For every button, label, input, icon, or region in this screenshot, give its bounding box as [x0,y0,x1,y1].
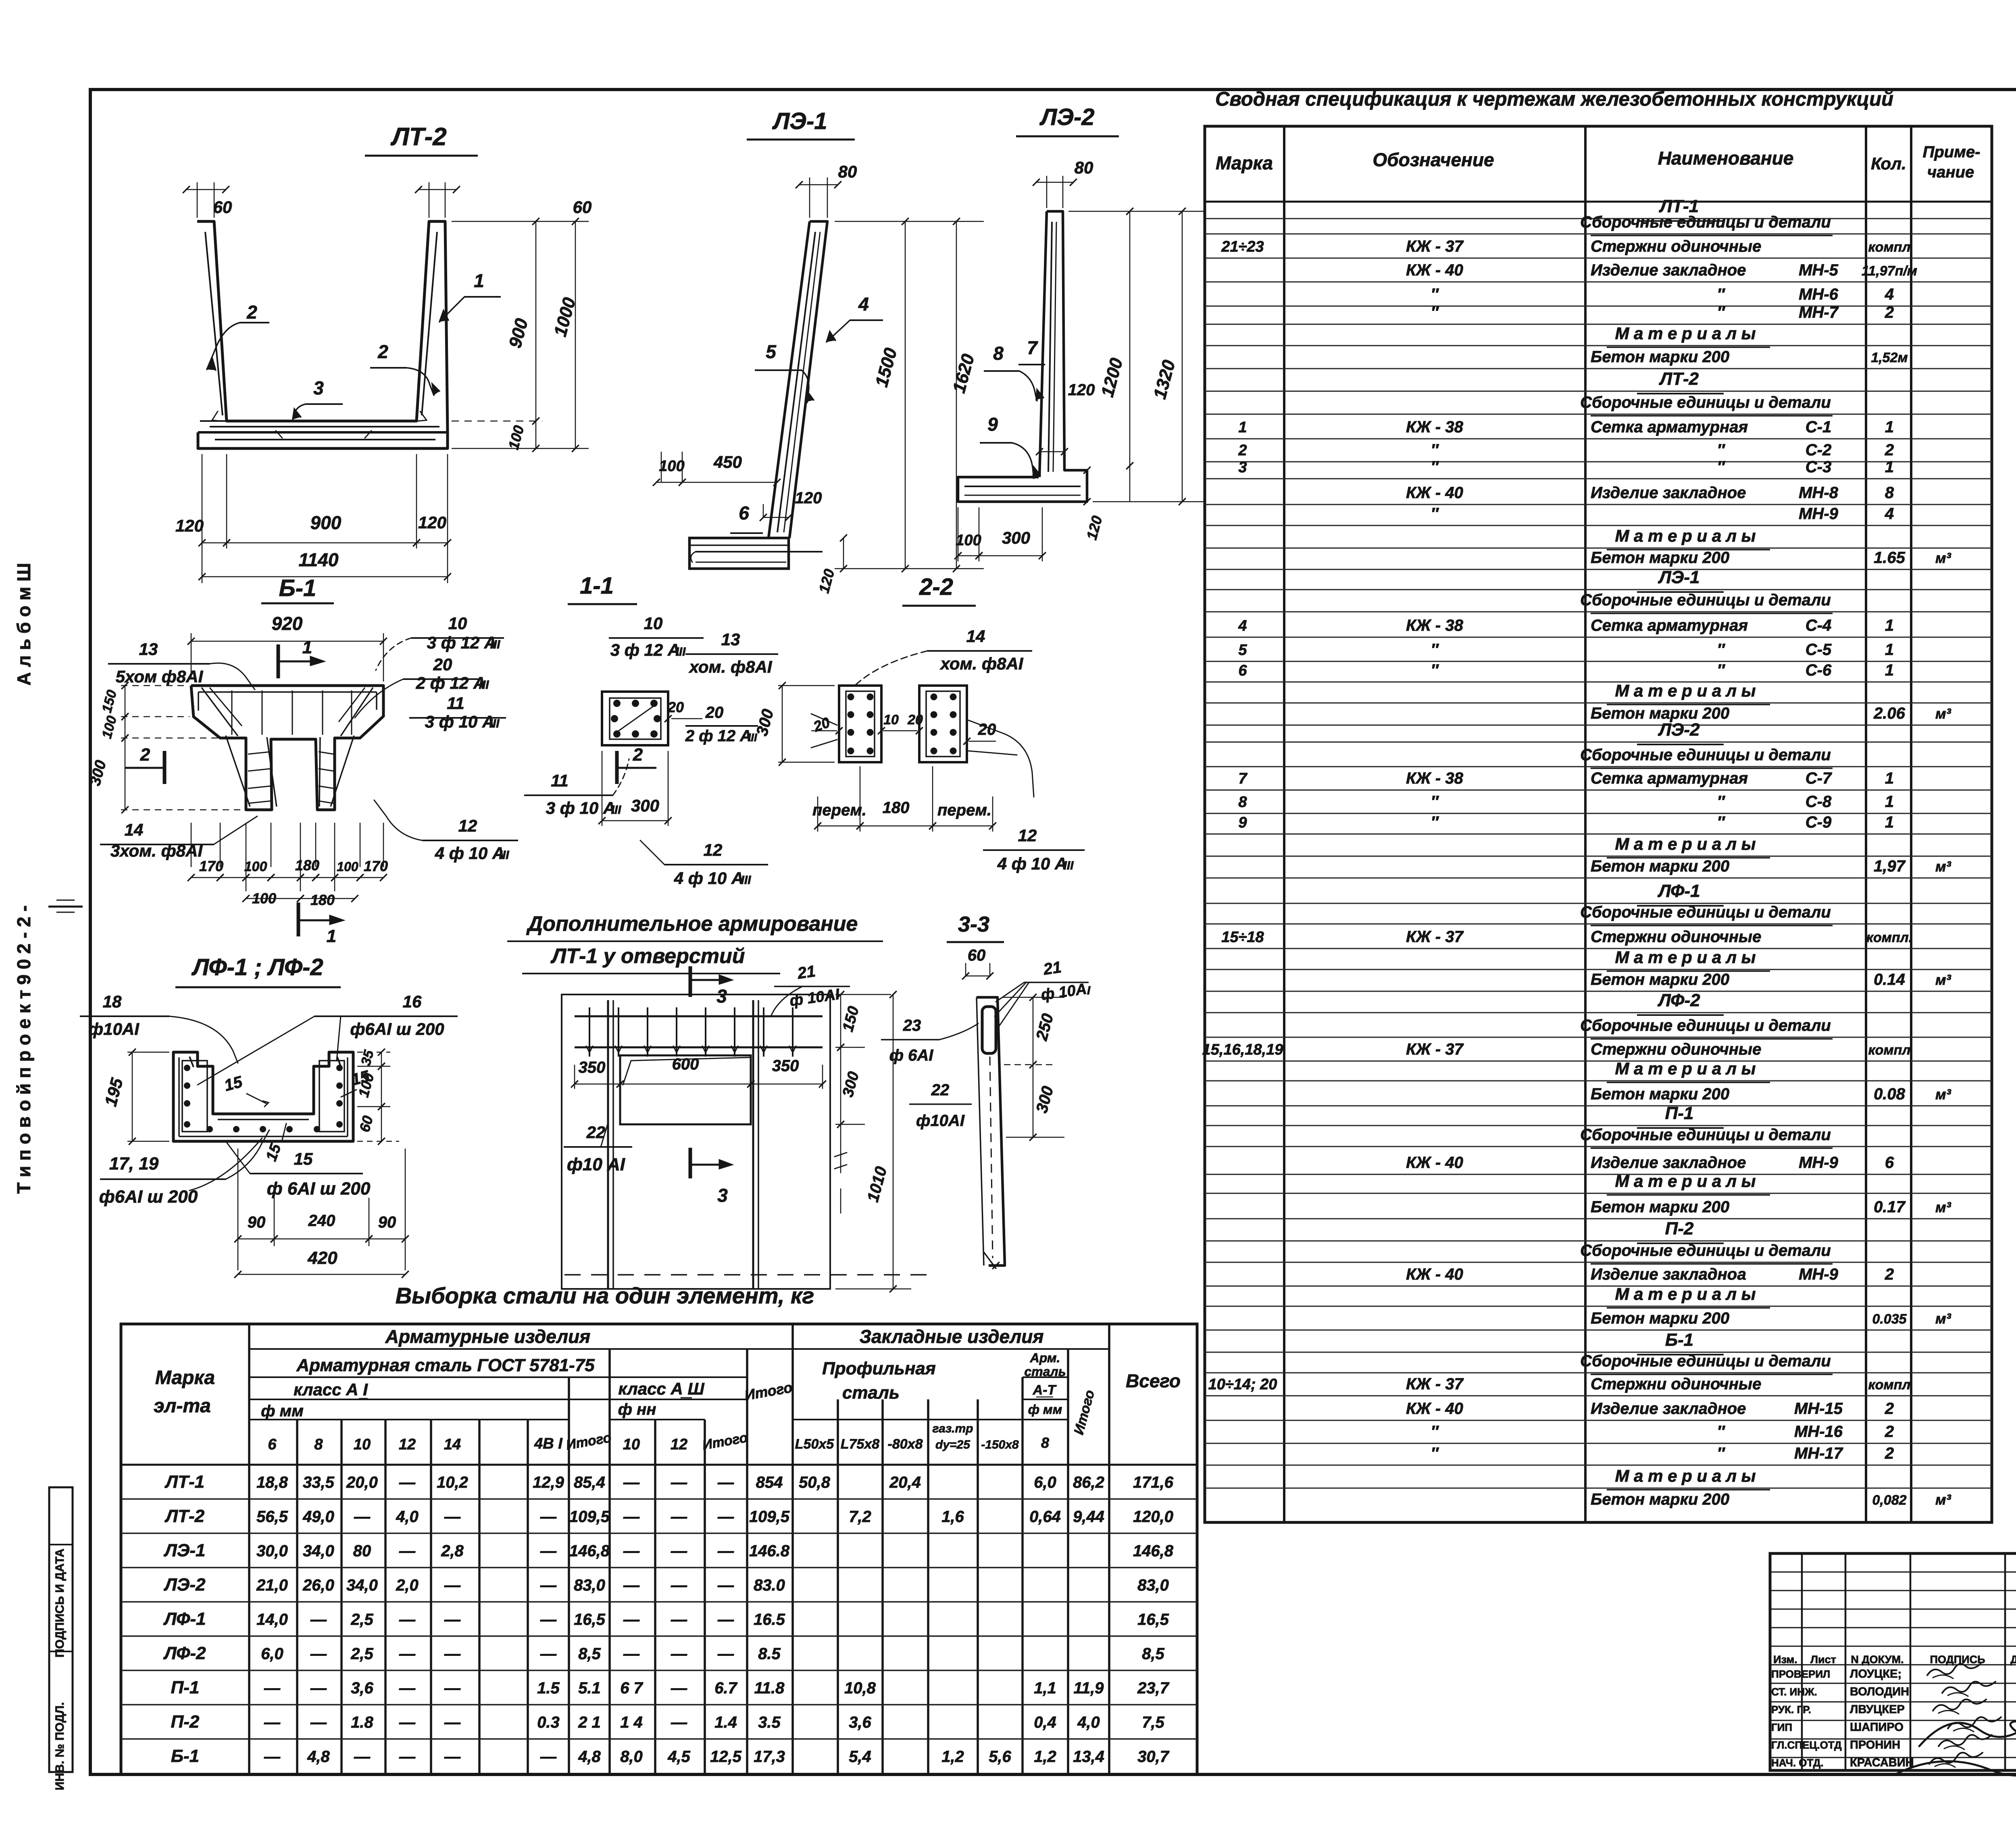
svg-text:ЛЭ-1: ЛЭ-1 [1658,567,1700,587]
svg-text:—: — [540,1611,557,1628]
svg-text:80: 80 [1075,158,1093,177]
svg-text:—: — [399,1474,416,1491]
svg-text:23: 23 [903,1017,921,1034]
svg-text:—: — [671,1714,687,1731]
svg-text:0,64: 0,64 [1029,1508,1061,1526]
svg-text:Изделие закладноа: Изделие закладноа [1591,1265,1746,1283]
svg-text:сталь: сталь [1024,1364,1066,1379]
svg-text:22: 22 [931,1081,950,1099]
svg-text:ф 6АI: ф 6АI [889,1047,934,1064]
svg-text:8.5: 8.5 [758,1645,781,1663]
svg-text:Бетон марки 200: Бетон марки 200 [1591,971,1729,988]
svg-text:ф6АI ш 200: ф6АI ш 200 [99,1187,198,1207]
svg-text:2,0: 2,0 [396,1576,419,1594]
svg-text:86,2: 86,2 [1073,1474,1104,1491]
svg-text:L75x8: L75x8 [841,1436,879,1452]
svg-text:МН-7: МН-7 [1799,304,1839,321]
svg-text:III: III [1063,859,1074,872]
svg-text:эл-та: эл-та [154,1395,211,1417]
svg-text:ф10АI: ф10АI [88,1019,140,1038]
svg-text:16,5: 16,5 [1137,1611,1169,1628]
svg-text:1: 1 [1885,661,1894,679]
svg-text:МН-17: МН-17 [1794,1445,1843,1462]
svg-text:1,1: 1,1 [1034,1679,1056,1697]
svg-text:″: ″ [1431,458,1439,476]
svg-text:920: 920 [272,613,303,634]
svg-text:С-6: С-6 [1806,661,1832,679]
svg-text:11,97п/м: 11,97п/м [1862,263,1917,279]
svg-text:—: — [623,1576,640,1594]
svg-text:0.08: 0.08 [1874,1085,1906,1103]
svg-text:300: 300 [631,796,659,815]
svg-text:3 ф 12 А: 3 ф 12 А [427,633,497,652]
section ЛЭ-1 right dims 1500 1620 [835,221,984,222]
svg-text:Изделие закладное: Изделие закладное [1591,1154,1746,1172]
section ЛФ dim 195 [127,1052,169,1053]
svg-text:ЛОУЦКЕ;: ЛОУЦКЕ; [1850,1668,1901,1680]
detail dashed bottom line [564,1274,927,1276]
svg-text:ЛЭ-1: ЛЭ-1 [164,1541,206,1560]
svg-text:Приме-: Приме- [1923,143,1981,161]
svg-text:7,2: 7,2 [849,1508,871,1526]
svg-text:—: — [310,1679,327,1697]
detail section mark 3 top [689,966,692,997]
title block frame [1770,1553,2016,1770]
svg-text:49,0: 49,0 [302,1508,334,1526]
svg-text:80: 80 [838,162,857,181]
svg-text:3.5: 3.5 [758,1714,781,1731]
svg-text:1: 1 [1885,793,1894,811]
svg-text:С-8: С-8 [1806,793,1832,811]
svg-text:14: 14 [966,627,985,646]
svg-text:Сборочные единицы и детали: Сборочные единицы и детали [1580,1352,1831,1370]
svg-text:80: 80 [353,1542,371,1560]
svg-text:350: 350 [772,1057,799,1075]
svg-text:-80x8: -80x8 [888,1436,923,1452]
svg-text:С-9: С-9 [1806,813,1832,831]
svg-text:—: — [354,1508,371,1526]
svg-text:8: 8 [1885,484,1894,502]
section ЛЭ-2 dim 80 top [1046,176,1048,208]
table Сводная спецификация row lines [1205,218,1992,219]
svg-text:5: 5 [766,341,777,362]
svg-text:30,7: 30,7 [1137,1748,1170,1766]
svg-text:ЛВУЦКЕР: ЛВУЦКЕР [1850,1703,1905,1716]
svg-text:Сетка арматурная: Сетка арматурная [1591,418,1748,436]
svg-text:5,4: 5,4 [849,1748,871,1766]
section ЛЭ-2 right dims 1200 1320 [1068,211,1204,212]
svg-text:компл: компл [1868,1042,1910,1058]
svg-text:″: ″ [1717,458,1725,476]
svg-text:НАЧ. ОТД.: НАЧ. ОТД. [1771,1757,1824,1769]
table Сводная спецификация grid [1205,126,1992,1522]
svg-text:120: 120 [418,513,446,532]
svg-text:11: 11 [551,771,569,790]
svg-text:11.8: 11.8 [754,1679,785,1697]
svg-text:компл.: компл. [1866,930,1913,945]
detail dim 350 600 350 [575,1084,620,1085]
svg-text:0.17: 0.17 [1874,1198,1906,1216]
section ЛФ stirrup rectangles [182,1061,207,1132]
svg-text:м³: м³ [1935,972,1951,988]
svg-text:2: 2 [1885,304,1894,321]
svg-text:Сборочные единицы и детали: Сборочные единицы и детали [1580,1017,1831,1034]
svg-text:КЖ - 38: КЖ - 38 [1406,769,1463,787]
section ЛФ bottom dim 420 [238,1274,405,1275]
svg-text:1,97: 1,97 [1874,857,1906,875]
svg-text:—: — [399,1542,416,1560]
svg-text:III: III [675,645,686,659]
svg-text:Профильная: Профильная [822,1359,936,1378]
svg-text:8: 8 [993,343,1004,364]
svg-text:—: — [399,1679,416,1697]
svg-text:1-1: 1-1 [580,573,614,599]
svg-text:III: III [611,803,621,817]
svg-text:Сборочные единицы и детали: Сборочные единицы и детали [1580,1126,1831,1144]
svg-text:1.5: 1.5 [537,1679,560,1697]
detail section mark 3 bottom [689,1148,692,1178]
svg-text:—: — [310,1645,327,1663]
svg-text:—: — [540,1576,557,1594]
svg-text:120: 120 [795,489,822,507]
section Б-1 section mark 2 left [163,751,167,784]
svg-text:″: ″ [1717,441,1725,459]
svg-text:1: 1 [1885,458,1894,476]
svg-text:—: — [264,1748,281,1766]
svg-text:10: 10 [448,614,467,633]
svg-text:С-3: С-3 [1806,458,1831,476]
svg-text:III: III [490,638,500,651]
section 2-2 left column rebar dots [848,694,854,701]
svg-text:перем.: перем. [937,801,991,819]
svg-text:ГЛ.СПЕЦ.ОТД: ГЛ.СПЕЦ.ОТД [1771,1739,1842,1751]
svg-text:МН-8: МН-8 [1799,484,1839,502]
svg-text:КЖ - 38: КЖ - 38 [1406,617,1463,634]
svg-text:—: — [444,1508,461,1526]
section 1-1 dim 300 [602,751,603,826]
svg-text:33,5: 33,5 [303,1474,335,1491]
section 3-3 opening profile [982,1007,996,1053]
svg-text:—: — [354,1748,371,1766]
svg-text:чание: чание [1927,163,1974,181]
section Б-1 bottom dims 170 100 180 100 170 [191,823,192,867]
svg-text:—: — [717,1542,734,1560]
svg-text:2: 2 [246,302,257,323]
section Б-1 section mark 1 bottom [297,903,300,936]
svg-text:ЛФ-1 ; ЛФ-2: ЛФ-1 ; ЛФ-2 [191,954,323,980]
svg-text:Сетка арматурная: Сетка арматурная [1591,617,1748,634]
svg-text:ф нн: ф нн [618,1401,656,1418]
svg-text:4,0: 4,0 [1077,1714,1100,1731]
svg-text:ЛЭ-2: ЛЭ-2 [1658,720,1700,740]
svg-text:5хом ф8АI: 5хом ф8АI [116,667,204,686]
svg-text:3хом. ф8АI: 3хом. ф8АI [110,841,203,860]
svg-text:—: — [717,1474,734,1491]
svg-text:С-7: С-7 [1806,769,1832,787]
svg-text:2 ф 12 А: 2 ф 12 А [685,727,752,745]
svg-text:Бетон марки 200: Бетон марки 200 [1591,348,1729,366]
svg-text:Сборочные единицы и детали: Сборочные единицы и детали [1580,903,1831,921]
svg-text:—: — [671,1611,687,1628]
section ЛТ-2 dim 60 right [429,182,430,218]
svg-text:9,44: 9,44 [1073,1508,1104,1526]
svg-text:—: — [399,1748,416,1766]
svg-text:″: ″ [1717,813,1725,831]
svg-text:1: 1 [1885,641,1894,659]
svg-text:ПОДПИСЬ: ПОДПИСЬ [1930,1653,1985,1666]
svg-text:420: 420 [307,1248,337,1268]
table Выборка стали grid [121,1324,1197,1774]
svg-text:1,6: 1,6 [941,1508,964,1526]
svg-text:—: — [399,1645,416,1663]
svg-text:″: ″ [1431,1423,1439,1441]
svg-text:6: 6 [268,1436,277,1453]
svg-text:ЛЭ-1: ЛЭ-1 [772,108,827,134]
section ЛЭ-1 dim 120 below foot [843,538,844,569]
svg-text:109,5: 109,5 [569,1508,610,1526]
svg-text:Сборочные единицы и детали: Сборочные единицы и детали [1580,394,1831,411]
svg-text:8: 8 [1238,794,1247,811]
svg-text:16,5: 16,5 [574,1611,606,1628]
section Б-1 concrete outline [191,686,383,810]
section ЛЭ-2 concrete outline [958,211,1087,502]
svg-text:МН-6: МН-6 [1799,286,1839,303]
svg-text:20: 20 [433,655,452,674]
svg-text:10÷14; 20: 10÷14; 20 [1208,1376,1277,1393]
svg-text:Стержни одиночные: Стержни одиночные [1591,928,1761,946]
svg-text:А л ь б о м Ш: А л ь б о м Ш [13,563,34,686]
section ЛТ-2 dim 60 left [197,182,198,218]
svg-text:1: 1 [1238,419,1247,436]
svg-text:—: — [444,1576,461,1594]
svg-text:0.3: 0.3 [537,1714,560,1731]
svg-text:сталь: сталь [842,1383,900,1403]
section Б-1 inner rebar cage [198,691,377,693]
svg-text:14,0: 14,0 [256,1611,288,1628]
svg-text:″: ″ [1431,304,1439,321]
svg-text:ЛФ-2: ЛФ-2 [1657,990,1700,1010]
svg-text:1: 1 [1885,617,1894,634]
svg-text:900: 900 [310,512,342,533]
svg-text:м³: м³ [1935,1086,1951,1103]
svg-text:7: 7 [1238,770,1248,787]
svg-text:П-1: П-1 [171,1678,200,1697]
svg-text:171,6: 171,6 [1133,1474,1174,1491]
svg-text:—: — [540,1508,557,1526]
svg-text:ДАТА: ДАТА [2010,1653,2016,1666]
svg-text:11,9: 11,9 [1074,1679,1104,1697]
svg-text:—: — [444,1679,461,1697]
svg-text:—: — [264,1679,281,1697]
section 3-3 column outline [977,997,1005,1265]
svg-text:2,5: 2,5 [350,1645,373,1663]
svg-text:С-5: С-5 [1806,641,1832,659]
svg-text:6,0: 6,0 [1034,1474,1056,1491]
svg-text:Арматурная сталь ГОСТ 5781-75: Арматурная сталь ГОСТ 5781-75 [296,1355,595,1375]
svg-text:ИНВ. № ПОДЛ.: ИНВ. № ПОДЛ. [53,1702,67,1791]
svg-text:М а т е р и а л ы: М а т е р и а л ы [1615,1059,1756,1078]
svg-text:КЖ - 37: КЖ - 37 [1406,238,1464,255]
detail top horizontal bars [575,1015,823,1017]
svg-text:ф6АI ш 200: ф6АI ш 200 [350,1019,444,1038]
svg-text:Изделие закладное: Изделие закладное [1591,1400,1746,1418]
svg-text:Дополнительное армирование: Дополнительное армирование [526,912,858,936]
section ЛЭ-2 bottom dims 100 300 [958,507,959,561]
svg-text:″: ″ [1431,505,1439,523]
svg-text:—: — [264,1714,281,1731]
svg-text:56,5: 56,5 [256,1508,288,1526]
svg-text:3 ф 10 А: 3 ф 10 А [425,712,495,731]
section 2-2 left column outline [839,686,881,762]
section Б-1 section mark 2 right [615,751,619,784]
svg-text:23,7: 23,7 [1137,1679,1170,1697]
svg-text:10: 10 [644,614,663,633]
svg-text:—: — [717,1576,734,1594]
svg-text:1.65: 1.65 [1874,549,1906,567]
svg-text:2.06: 2.06 [1873,705,1906,722]
svg-text:перем.: перем. [812,801,866,819]
svg-text:″: ″ [1717,793,1725,811]
svg-text:9: 9 [987,414,998,435]
svg-text:″: ″ [1431,441,1439,459]
svg-text:83,0: 83,0 [574,1576,605,1594]
svg-text:С-1: С-1 [1806,418,1831,436]
svg-text:6: 6 [739,502,749,523]
svg-text:20: 20 [667,699,684,715]
svg-text:3: 3 [313,377,324,398]
svg-text:—: — [540,1542,557,1560]
svg-text:12: 12 [399,1436,416,1453]
svg-text:—: — [310,1714,327,1731]
svg-text:21,0: 21,0 [256,1576,288,1594]
svg-text:350: 350 [579,1059,606,1076]
section 3-3 bottom mark [984,1252,996,1268]
svg-text:2: 2 [1885,1400,1894,1418]
svg-text:83,0: 83,0 [1137,1576,1169,1594]
svg-text:Всего: Всего [1126,1370,1181,1391]
svg-text:26,0: 26,0 [302,1576,334,1594]
svg-text:МН-5: МН-5 [1799,261,1839,279]
svg-text:13,4: 13,4 [1073,1748,1104,1766]
svg-text:146,8: 146,8 [569,1542,610,1560]
svg-text:170: 170 [199,858,223,874]
svg-text:120: 120 [1068,381,1095,399]
svg-text:хом. ф8АI: хом. ф8АI [940,654,1024,673]
title block big signature [1919,1721,2016,1746]
svg-text:ф10 АI: ф10 АI [567,1155,625,1174]
svg-text:—: — [310,1611,327,1628]
svg-text:м³: м³ [1935,705,1951,722]
svg-text:Марка: Марка [155,1367,215,1389]
svg-text:Бетон марки 200: Бетон марки 200 [1591,1085,1729,1103]
svg-text:120,0: 120,0 [1133,1508,1173,1526]
svg-text:Т и п о в о й п р о е к т: Т и п о в о й п р о е к т 9 0 2 - 2 - [13,905,34,1194]
svg-text:М а т е р и а л ы: М а т е р и а л ы [1615,526,1756,545]
svg-text:83.0: 83.0 [754,1576,785,1594]
svg-text:2: 2 [1885,1445,1894,1462]
svg-text:П-2: П-2 [171,1712,200,1732]
section 3-3 right dims 250 300 [1002,997,1064,998]
svg-text:3,6: 3,6 [351,1679,373,1697]
svg-text:ПОДПИСЬ И ДАТА: ПОДПИСЬ И ДАТА [53,1549,67,1657]
svg-text:100: 100 [244,859,267,874]
svg-text:Марка: Марка [1216,152,1273,173]
svg-text:ф мм: ф мм [261,1402,304,1420]
section Б-1 left dims 150 100 300 [121,685,185,686]
svg-text:2-2: 2-2 [919,574,953,600]
svg-text:21: 21 [1042,958,1062,978]
svg-text:Стержни одиночные: Стержни одиночные [1591,1040,1761,1058]
svg-text:146,8: 146,8 [1133,1542,1174,1560]
svg-text:—: — [717,1611,734,1628]
section ЛТ-2 right dim 900 and 1000 [452,221,589,222]
svg-text:60: 60 [968,947,986,964]
svg-text:Сборочные единицы и детали: Сборочные единицы и детали [1580,1242,1831,1259]
svg-text:Наименование: Наименование [1658,148,1794,169]
svg-text:″: ″ [1717,304,1725,321]
svg-text:0.035: 0.035 [1872,1311,1907,1327]
svg-text:МН-9: МН-9 [1799,1154,1839,1172]
svg-text:4,8: 4,8 [578,1748,601,1766]
svg-text:—: — [444,1611,461,1628]
svg-text:КЖ - 37: КЖ - 37 [1406,928,1464,946]
svg-text:2 ф 12 А: 2 ф 12 А [416,673,486,692]
svg-text:КЖ - 40: КЖ - 40 [1406,1265,1463,1283]
svg-text:—: — [623,1508,640,1526]
svg-text:15÷18: 15÷18 [1221,929,1264,946]
svg-text:—: — [717,1645,734,1663]
svg-text:ЛЭ-2: ЛЭ-2 [164,1575,206,1595]
section 1-1 column outline [602,692,668,745]
svg-text:Бетон марки 200: Бетон марки 200 [1591,549,1729,567]
section ЛФ bottom dims 90 240 90 [237,1149,239,1270]
svg-text:90: 90 [378,1213,396,1231]
svg-text:РУК. ГР.: РУК. ГР. [1771,1703,1811,1716]
svg-text:ПРОНИН: ПРОНИН [1850,1739,1900,1751]
svg-text:2: 2 [1885,1423,1894,1441]
svg-text:16.5: 16.5 [754,1611,785,1628]
svg-text:ГИП: ГИП [1771,1721,1792,1733]
section ЛЭ-1 dim 80 top [809,177,810,218]
svg-text:1140: 1140 [299,549,339,570]
svg-text:1,52м: 1,52м [1871,350,1908,365]
svg-text:ф 6АI ш 200: ф 6АI ш 200 [267,1179,371,1199]
svg-text:50,8: 50,8 [799,1474,831,1491]
svg-text:100: 100 [337,859,358,874]
svg-text:—: — [717,1508,734,1526]
svg-text:компл: компл [1868,1377,1910,1393]
svg-text:″: ″ [1431,1445,1439,1462]
svg-text:″: ″ [1717,661,1725,679]
svg-text:13: 13 [139,640,158,659]
svg-text:3: 3 [716,986,727,1007]
svg-text:2,5: 2,5 [350,1611,373,1628]
svg-text:6.7: 6.7 [714,1679,737,1697]
svg-text:34,0: 34,0 [303,1542,334,1560]
svg-text:2: 2 [140,745,150,765]
svg-text:компл: компл [1868,240,1910,255]
svg-text:0,082: 0,082 [1872,1493,1906,1508]
svg-text:—: — [671,1542,687,1560]
svg-text:″: ″ [1431,661,1439,679]
svg-text:12: 12 [1018,826,1037,845]
svg-text:—: — [671,1474,687,1491]
svg-text:″: ″ [1431,641,1439,659]
svg-text:Стержни одиночные: Стержни одиночные [1591,1375,1761,1393]
svg-text:10: 10 [354,1436,371,1453]
svg-text:М а т е р и а л ы: М а т е р и а л ы [1615,1172,1756,1190]
svg-text:Закладные изделия: Закладные изделия [859,1326,1043,1347]
